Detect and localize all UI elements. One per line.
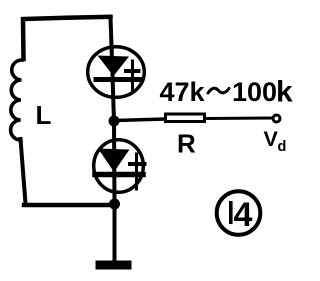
svg-text:d: d [278,139,287,155]
svg-text:k: k [276,76,293,109]
svg-text:V: V [264,127,279,151]
svg-text:47k: 47k [160,77,206,107]
svg-text:4: 4 [234,196,253,234]
svg-text:L: L [36,100,52,130]
svg-text:R: R [177,129,196,159]
svg-text:100: 100 [232,77,277,107]
